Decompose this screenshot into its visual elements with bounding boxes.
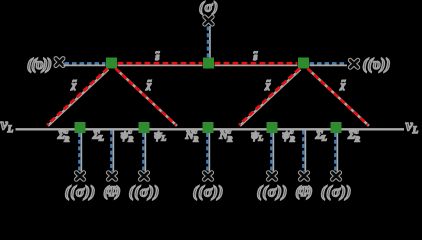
svg-text:~: ~	[253, 48, 258, 57]
cross X B3	[140, 173, 147, 180]
label chi4	[339, 77, 347, 92]
svg-text:((σ)): ((σ))	[65, 184, 96, 201]
wire red segment 1	[118, 63, 203, 65]
label chi3	[264, 77, 272, 92]
svg-text:(Φ): (Φ)	[295, 184, 312, 200]
wire blue left segment	[64, 63, 106, 65]
node square U1 top-left	[106, 58, 117, 69]
svg-text:ψcR: ψcR	[282, 127, 295, 144]
svg-text:~: ~	[155, 48, 160, 57]
cross X B2	[108, 173, 115, 180]
label s1	[155, 48, 161, 63]
svg-text:NcR: NcR	[185, 127, 199, 144]
node square B2	[139, 122, 150, 133]
wire vertical V6	[304, 131, 306, 172]
svg-text:((σ)): ((σ))	[257, 184, 288, 201]
wire diagonal D3	[239, 69, 300, 126]
wire vertical V2	[112, 131, 114, 172]
node square B3	[203, 122, 214, 133]
node square U3 top-right	[298, 58, 309, 69]
svg-text:NcR: NcR	[218, 127, 232, 144]
svg-text:((υ)): ((υ))	[27, 56, 52, 73]
label chi2	[145, 77, 153, 92]
node square B1	[75, 122, 86, 133]
svg-text:~: ~	[147, 77, 152, 86]
svg-text:~: ~	[341, 77, 346, 86]
cross X B7	[332, 173, 339, 180]
svg-text:((σ)): ((σ))	[193, 184, 224, 201]
svg-text:~: ~	[72, 77, 77, 86]
wire diagonal D2	[116, 69, 177, 126]
svg-text:((υ)): ((υ))	[363, 56, 391, 73]
cross X B6	[300, 173, 307, 180]
cross X B1	[76, 173, 83, 180]
svg-text:((σ)): ((σ))	[321, 184, 352, 201]
wire vertical top-center	[208, 26, 210, 58]
svg-text:(Φ): (Φ)	[103, 184, 120, 200]
cross X B4	[204, 173, 211, 180]
wire vertical V5	[272, 133, 274, 172]
svg-text:ΣcR: ΣcR	[347, 127, 360, 144]
wire vertical V4	[208, 133, 210, 172]
svg-text:ΣcR: ΣcR	[57, 127, 70, 144]
node square U2 top-center	[203, 58, 214, 69]
cross X right	[350, 60, 358, 67]
svg-text:~: ~	[266, 77, 271, 86]
node square B4	[267, 122, 278, 133]
wire red segment 2	[215, 63, 298, 65]
label chi1	[70, 77, 78, 92]
svg-text:((σ)): ((σ))	[129, 184, 160, 201]
node square B5	[331, 122, 342, 133]
wire diagonal D4	[308, 69, 369, 126]
label s2	[253, 48, 259, 63]
wire vertical V1	[80, 133, 82, 172]
cross X left	[56, 59, 63, 66]
wire bottom line	[16, 128, 405, 130]
cross X top-center	[205, 17, 213, 24]
wire vertical V7	[336, 133, 338, 172]
wire vertical V3	[144, 133, 146, 172]
wire diagonal D1	[47, 69, 108, 126]
svg-text:(σ): (σ)	[199, 0, 218, 16]
wire blue right segment	[310, 63, 348, 65]
cross X B5	[268, 173, 275, 180]
svg-text:ψcR: ψcR	[121, 127, 134, 144]
